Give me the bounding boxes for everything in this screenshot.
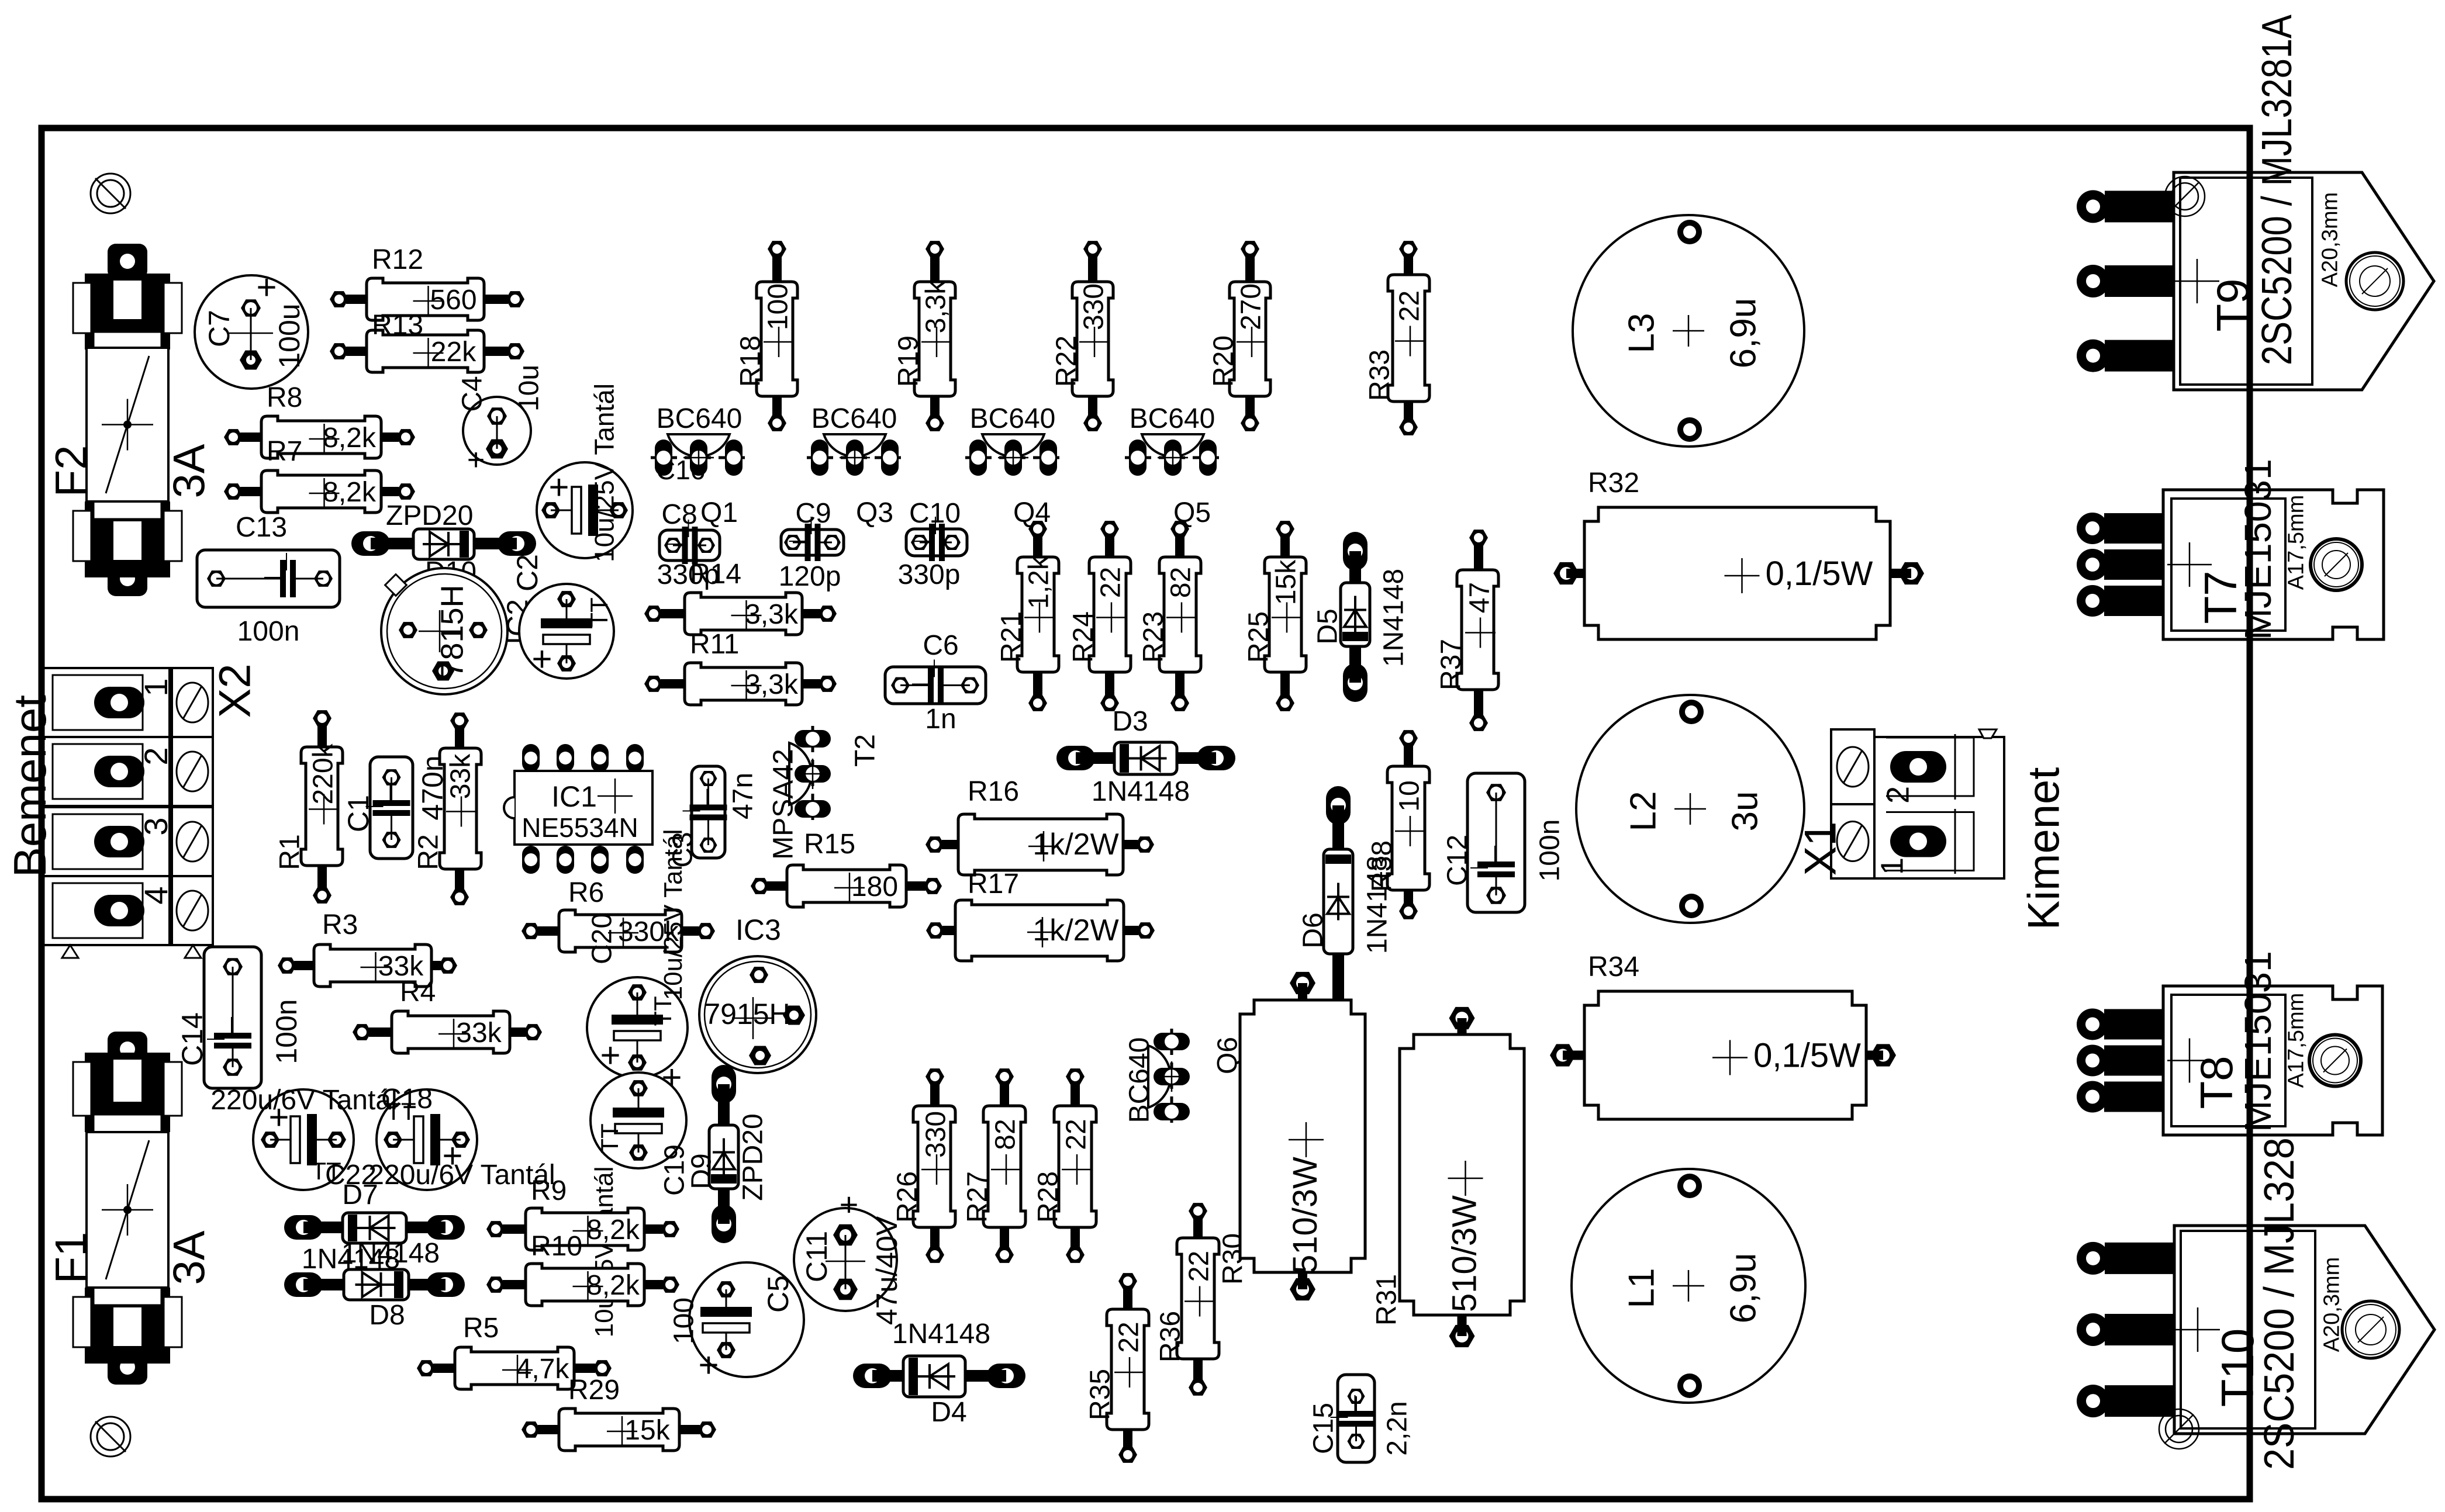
svg-text:Q1: Q1 — [700, 497, 738, 528]
svg-text:1: 1 — [137, 678, 174, 696]
svg-text:7815H: 7815H — [434, 584, 469, 677]
svg-text:R26: R26 — [892, 1171, 923, 1223]
svg-text:NE5534N: NE5534N — [522, 812, 638, 843]
svg-text:3A: 3A — [164, 444, 214, 498]
svg-text:R27: R27 — [962, 1171, 993, 1223]
svg-text:2: 2 — [1880, 786, 1915, 804]
svg-text:R6: R6 — [568, 877, 604, 908]
svg-text:10u/25V Tantál: 10u/25V Tantál — [590, 1167, 619, 1338]
svg-text:1k/2W: 1k/2W — [1032, 914, 1118, 947]
svg-text:R20: R20 — [1208, 335, 1239, 387]
svg-text:6,9u: 6,9u — [1723, 298, 1763, 369]
svg-text:+: + — [698, 1345, 719, 1385]
svg-text:BC640: BC640 — [1130, 403, 1215, 434]
svg-text:+: + — [531, 639, 552, 679]
svg-text:22: 22 — [1394, 290, 1425, 321]
svg-text:1k/2W: 1k/2W — [1032, 828, 1118, 861]
svg-text:220u/6V Tantál: 220u/6V Tantál — [368, 1160, 555, 1191]
svg-text:R18: R18 — [735, 335, 766, 387]
svg-text:IC1: IC1 — [551, 780, 597, 813]
svg-text:R31: R31 — [1371, 1274, 1402, 1326]
svg-text:C18: C18 — [381, 1084, 433, 1115]
svg-text:330: 330 — [1078, 283, 1109, 330]
svg-text:X1: X1 — [1795, 822, 1845, 876]
svg-text:R4: R4 — [400, 977, 436, 1008]
svg-text:D4: D4 — [931, 1397, 966, 1428]
svg-text:1N4148: 1N4148 — [892, 1319, 990, 1350]
svg-text:R17: R17 — [968, 869, 1019, 899]
svg-text:C2: C2 — [511, 554, 544, 591]
svg-text:1,2k: 1,2k — [1023, 555, 1054, 609]
svg-text:F1: F1 — [46, 1232, 96, 1284]
svg-text:1: 1 — [1874, 857, 1909, 875]
svg-text:100: 100 — [668, 1298, 699, 1344]
svg-text:Q3: Q3 — [856, 497, 893, 528]
svg-text:R21: R21 — [996, 611, 1027, 663]
svg-text:D8: D8 — [369, 1300, 405, 1331]
svg-text:R2: R2 — [413, 834, 444, 870]
svg-text:C20: C20 — [586, 913, 617, 964]
svg-text:R32: R32 — [1588, 468, 1639, 499]
svg-text:10u: 10u — [513, 365, 544, 411]
svg-text:T8: T8 — [2191, 1056, 2242, 1109]
svg-text:82: 82 — [1165, 567, 1196, 598]
svg-text:F2: F2 — [46, 445, 96, 497]
svg-text:L3: L3 — [1621, 313, 1662, 354]
svg-text:R8: R8 — [267, 382, 302, 413]
svg-text:R16: R16 — [968, 776, 1019, 807]
svg-text:15k: 15k — [624, 1415, 670, 1446]
svg-text:C4: C4 — [457, 376, 488, 411]
svg-text:R13: R13 — [372, 310, 423, 341]
svg-text:C6: C6 — [923, 630, 958, 661]
svg-text:C14: C14 — [176, 1012, 209, 1066]
svg-text:10u/25V Tantál: 10u/25V Tantál — [659, 829, 688, 1001]
svg-text:C13: C13 — [236, 512, 287, 543]
svg-text:R12: R12 — [372, 244, 423, 275]
svg-text:C10: C10 — [909, 498, 961, 529]
svg-text:Bemenet: Bemenet — [4, 695, 56, 878]
svg-text:7915H: 7915H — [704, 998, 790, 1030]
svg-text:R23: R23 — [1138, 611, 1169, 663]
svg-text:1N4148: 1N4148 — [1092, 776, 1190, 807]
svg-text:A20,3mm: A20,3mm — [2318, 192, 2343, 288]
svg-text:R15: R15 — [804, 829, 855, 860]
svg-text:R37: R37 — [1435, 639, 1466, 690]
svg-text:C15: C15 — [1308, 1403, 1339, 1454]
svg-text:82: 82 — [990, 1119, 1021, 1150]
svg-text:T10: T10 — [2212, 1328, 2263, 1407]
svg-text:560: 560 — [430, 285, 476, 316]
svg-text:R35: R35 — [1085, 1369, 1116, 1420]
svg-text:180: 180 — [851, 871, 898, 902]
svg-text:R29: R29 — [568, 1375, 620, 1406]
svg-text:X2: X2 — [210, 664, 260, 718]
svg-text:R38: R38 — [1366, 840, 1397, 892]
svg-text:D3: D3 — [1112, 706, 1148, 737]
svg-text:C8: C8 — [661, 499, 697, 530]
svg-text:L2: L2 — [1623, 791, 1663, 832]
svg-text:4,7k: 4,7k — [516, 1354, 570, 1385]
svg-text:3: 3 — [137, 817, 174, 835]
svg-text:2: 2 — [137, 747, 174, 765]
svg-text:R3: R3 — [322, 909, 358, 940]
svg-text:100n: 100n — [270, 999, 303, 1064]
svg-text:22: 22 — [1095, 567, 1126, 598]
svg-text:R10: R10 — [531, 1231, 582, 1262]
svg-text:+: + — [600, 1036, 620, 1075]
svg-text:L1: L1 — [1621, 1268, 1662, 1309]
svg-text:+: + — [661, 1058, 682, 1097]
svg-text:47: 47 — [1464, 582, 1495, 613]
svg-text:R19: R19 — [893, 335, 924, 387]
svg-text:22k: 22k — [431, 337, 476, 368]
svg-text:47u/40V: 47u/40V — [871, 1216, 903, 1325]
svg-text:8,2k: 8,2k — [323, 477, 377, 508]
svg-text:3u: 3u — [1725, 791, 1765, 832]
svg-text:C5: C5 — [762, 1275, 795, 1313]
svg-text:C1: C1 — [342, 795, 375, 832]
svg-text:0,1/5W: 0,1/5W — [1753, 1037, 1861, 1075]
svg-text:R11: R11 — [690, 629, 740, 660]
svg-text:C9: C9 — [795, 498, 831, 529]
svg-text:3A: 3A — [164, 1230, 214, 1285]
svg-text:Q6: Q6 — [1212, 1037, 1243, 1074]
svg-text:33k: 33k — [445, 753, 476, 799]
svg-text:C12: C12 — [1442, 835, 1473, 886]
svg-text:Kimenet: Kimenet — [2019, 767, 2068, 930]
svg-text:6,9u: 6,9u — [1723, 1253, 1763, 1324]
svg-text:+: + — [467, 443, 485, 477]
svg-text:TT: TT — [596, 1123, 623, 1153]
svg-text:8,2k: 8,2k — [586, 1215, 640, 1245]
svg-text:R25: R25 — [1243, 611, 1274, 663]
svg-text:ZPD20: ZPD20 — [386, 500, 473, 531]
svg-text:R34: R34 — [1588, 952, 1639, 982]
svg-text:220u/6V Tantál: 220u/6V Tantál — [210, 1085, 397, 1116]
svg-text:R7: R7 — [267, 436, 302, 467]
svg-text:MJE15031: MJE15031 — [2237, 459, 2279, 640]
svg-text:100n: 100n — [1534, 819, 1565, 882]
svg-text:15k: 15k — [1270, 559, 1301, 605]
svg-text:1N4148: 1N4148 — [1378, 569, 1409, 667]
svg-text:BC640: BC640 — [1124, 1037, 1155, 1123]
svg-text:22: 22 — [1061, 1119, 1092, 1150]
svg-text:R24: R24 — [1068, 611, 1099, 663]
svg-text:D5: D5 — [1312, 608, 1343, 644]
svg-text:100u: 100u — [273, 303, 306, 368]
svg-text:3,3k: 3,3k — [745, 669, 799, 700]
svg-text:22: 22 — [1113, 1321, 1144, 1352]
svg-text:R22: R22 — [1051, 335, 1082, 387]
svg-text:+: + — [840, 1186, 859, 1223]
svg-text:3,3k: 3,3k — [745, 599, 799, 630]
svg-text:IC3: IC3 — [735, 914, 781, 946]
svg-text:120p: 120p — [779, 561, 841, 592]
svg-text:ZPD20: ZPD20 — [737, 1113, 768, 1200]
svg-text:BC640: BC640 — [811, 403, 897, 434]
svg-text:MJE15031: MJE15031 — [2237, 951, 2279, 1132]
svg-text:330p: 330p — [898, 559, 961, 590]
svg-text:33k: 33k — [456, 1018, 502, 1049]
svg-text:510/3W: 510/3W — [1445, 1195, 1483, 1312]
svg-text:22: 22 — [1183, 1251, 1214, 1282]
svg-text:R5: R5 — [463, 1313, 499, 1344]
svg-text:R28: R28 — [1032, 1171, 1063, 1223]
svg-text:A17,5mm: A17,5mm — [2284, 495, 2309, 590]
svg-text:3,3k: 3,3k — [920, 280, 951, 334]
svg-text:D9: D9 — [686, 1153, 717, 1189]
svg-text:0,1/5W: 0,1/5W — [1766, 555, 1873, 593]
svg-text:1N4148: 1N4148 — [341, 1238, 440, 1269]
svg-text:R36: R36 — [1155, 1311, 1186, 1362]
svg-text:10: 10 — [1394, 780, 1425, 811]
svg-text:100n: 100n — [237, 616, 300, 647]
svg-text:R14: R14 — [690, 559, 741, 590]
svg-text:MPSA42: MPSA42 — [768, 749, 799, 859]
svg-text:R1: R1 — [274, 834, 305, 870]
svg-text:10u/25V Tantál: 10u/25V Tantál — [589, 383, 620, 562]
svg-text:TT: TT — [585, 597, 613, 627]
svg-text:220k: 220k — [308, 743, 339, 804]
svg-text:47n: 47n — [727, 773, 758, 819]
svg-text:1n: 1n — [925, 704, 956, 735]
svg-text:8,2k: 8,2k — [323, 423, 377, 454]
svg-text:R33: R33 — [1364, 350, 1395, 401]
svg-text:+: + — [548, 468, 569, 507]
svg-text:A20,3mm: A20,3mm — [2320, 1257, 2344, 1352]
svg-text:2SC5200 / MJL3281A: 2SC5200 / MJL3281A — [2256, 1090, 2303, 1470]
svg-text:C7: C7 — [203, 310, 236, 347]
svg-text:BC640: BC640 — [657, 403, 743, 434]
svg-text:8,2k: 8,2k — [586, 1270, 640, 1301]
svg-text:2,2n: 2,2n — [1382, 1401, 1413, 1455]
svg-text:2SC5200 / MJL3281A: 2SC5200 / MJL3281A — [2254, 15, 2301, 365]
svg-text:330: 330 — [920, 1111, 951, 1158]
svg-text:100: 100 — [762, 283, 793, 330]
svg-text:270: 270 — [1235, 283, 1266, 330]
svg-text:A17,5mm: A17,5mm — [2284, 993, 2309, 1088]
svg-text:4: 4 — [137, 886, 174, 904]
svg-text:T2: T2 — [849, 734, 880, 767]
svg-text:+: + — [256, 268, 277, 307]
svg-text:BC640: BC640 — [970, 403, 1056, 434]
svg-text:510/3W: 510/3W — [1286, 1157, 1324, 1274]
svg-text:C11: C11 — [800, 1231, 833, 1282]
svg-text:D6: D6 — [1297, 912, 1328, 948]
